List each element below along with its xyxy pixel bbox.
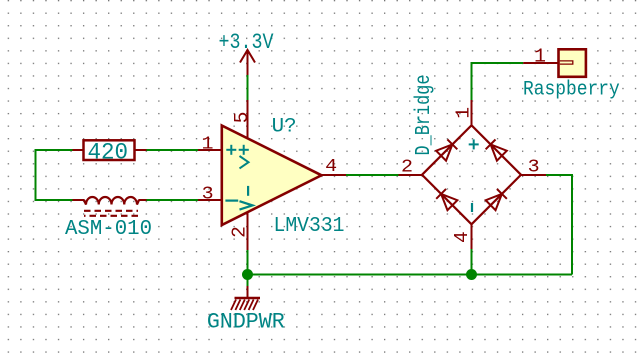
svg-text:1: 1 <box>534 45 546 67</box>
wire bridge pin4 down to bottom bus <box>471 249 473 275</box>
pin name - (pin 3) <box>225 200 238 202</box>
wire left feedback loop <box>36 150 73 200</box>
svg-text:1: 1 <box>202 134 214 155</box>
svg-text:GNDPWR: GNDPWR <box>207 309 285 335</box>
pin name V+ (pin 5) <box>239 145 249 169</box>
bridge pin 4 <box>471 224 473 249</box>
wire resistor to opamp pin1 <box>147 149 199 151</box>
op-amp pin 3 <box>198 199 222 201</box>
svg-text:D_Bridge: D_Bridge <box>413 75 436 156</box>
svg-text:2: 2 <box>401 156 413 177</box>
diode top-left <box>436 139 457 160</box>
svg-text:5: 5 <box>231 112 253 124</box>
bridge minus marking <box>471 203 473 212</box>
wire opamp pin2 down to bottom bus <box>247 250 249 275</box>
bridge pin 3 <box>521 174 546 176</box>
wire bridge pin3 right and down to bottom bus <box>546 175 572 275</box>
svg-text:2: 2 <box>229 226 251 238</box>
bridge pin 2 <box>399 174 423 176</box>
svg-text:420: 420 <box>88 139 129 165</box>
wire inductor to opamp pin3 <box>147 199 199 201</box>
svg-text:3: 3 <box>528 156 540 177</box>
svg-text:Raspberry: Raspberry <box>523 79 620 102</box>
wire opamp output to bridge pin2 <box>346 174 399 176</box>
op-amp pin 4 <box>322 174 347 176</box>
pin name V- (pin 2) <box>240 186 253 210</box>
svg-text:3: 3 <box>202 184 214 205</box>
op-amp pin 1 <box>198 149 222 151</box>
op-amp pin 2 <box>247 213 249 251</box>
inductor ASM-010 <box>65 197 152 241</box>
wire bridge pin1 up and right to Raspberry <box>472 63 524 100</box>
diode bottom-right <box>486 189 507 210</box>
op-amp U1 body <box>222 126 322 226</box>
diode bottom-left <box>436 189 457 210</box>
pin name + (pin 1) <box>226 145 236 155</box>
power symbol +3.3V <box>240 50 255 75</box>
wire +3.3V to opamp pin5 <box>247 75 249 100</box>
wire junction to GNDPWR <box>247 275 249 287</box>
resistor 420 <box>73 139 147 165</box>
svg-text:4: 4 <box>325 156 337 177</box>
svg-text:U?: U? <box>272 116 297 139</box>
svg-text:LMV331: LMV331 <box>274 215 345 238</box>
ground GNDPWR <box>231 286 260 310</box>
op-amp pin 5 <box>247 100 249 138</box>
svg-text:ASM-010: ASM-010 <box>65 218 152 241</box>
diode bridge D1 body <box>422 125 521 224</box>
junction below bridge <box>466 269 477 280</box>
wire bottom bus <box>248 274 573 276</box>
svg-text:4: 4 <box>451 231 473 243</box>
svg-text:1: 1 <box>452 107 474 119</box>
bridge plus marking <box>469 139 479 149</box>
svg-text:+3.3V: +3.3V <box>219 29 274 55</box>
bridge pin 1 <box>471 100 473 125</box>
connector Raspberry pin 1 <box>523 62 558 64</box>
connector Raspberry body <box>559 49 586 77</box>
diode top-right <box>486 140 507 161</box>
junction at opamp ground <box>242 269 253 280</box>
connector socket glyph <box>560 61 573 64</box>
